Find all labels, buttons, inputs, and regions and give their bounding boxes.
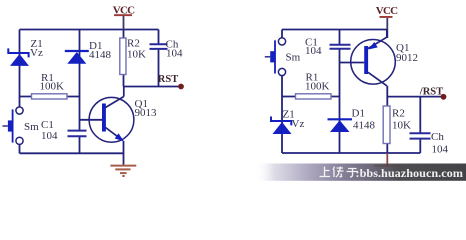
svg-text:Sm: Sm — [24, 121, 39, 133]
svg-text:100K: 100K — [305, 81, 330, 93]
svg-text:100K: 100K — [40, 81, 65, 93]
svg-text:R2: R2 — [392, 108, 405, 120]
svg-text:VCC: VCC — [113, 5, 135, 17]
svg-text:Ch: Ch — [431, 131, 444, 143]
svg-text:104: 104 — [432, 144, 449, 156]
svg-text:/RST: /RST — [419, 86, 443, 97]
svg-text:4148: 4148 — [89, 49, 112, 61]
svg-text:104: 104 — [41, 130, 58, 142]
svg-text:104: 104 — [305, 45, 322, 57]
svg-text:Vz: Vz — [30, 47, 43, 59]
svg-text:Sm: Sm — [286, 52, 301, 64]
svg-text:VCC: VCC — [376, 5, 398, 17]
svg-text:9012: 9012 — [396, 52, 418, 64]
svg-text:9013: 9013 — [135, 107, 158, 119]
svg-text:Vz: Vz — [292, 118, 305, 130]
svg-text:104: 104 — [166, 47, 183, 59]
svg-text:10K: 10K — [392, 120, 411, 132]
svg-text:R2: R2 — [127, 37, 140, 49]
svg-text::bbs.huazhoucn.com: :bbs.huazhoucn.com — [356, 166, 464, 180]
svg-text:10K: 10K — [127, 49, 146, 61]
svg-text:4148: 4148 — [353, 120, 376, 132]
svg-text:D1: D1 — [352, 107, 365, 119]
svg-text:RST: RST — [158, 74, 178, 85]
